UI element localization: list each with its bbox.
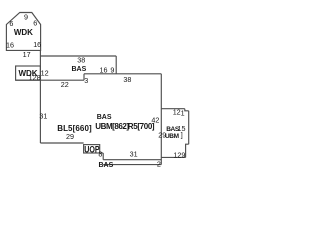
svg-text:16: 16 [33, 40, 41, 49]
svg-text:UBM[862]: UBM[862] [95, 122, 129, 131]
svg-text:16: 16 [100, 65, 108, 74]
wire: left wall of main block [39, 80, 41, 143]
svg-text:16: 16 [6, 40, 14, 49]
wire: right wall of main block [160, 74, 162, 165]
svg-text:UOP: UOP [84, 145, 99, 155]
svg-text:]: ] [181, 131, 183, 140]
svg-text:29: 29 [66, 132, 74, 141]
porch UOP box [84, 145, 100, 153]
wire: top wall of main block [16, 79, 84, 81]
wire: right wing top wall [161, 108, 185, 110]
wire: right wing bottom-right step [186, 144, 189, 157]
wire: 8 ft step wall [102, 153, 104, 160]
wire: BAS bump right wall [115, 56, 117, 74]
svg-text:129: 129 [173, 150, 185, 159]
svg-text:9: 9 [24, 13, 28, 22]
svg-text:31: 31 [39, 112, 47, 121]
wire: ledge from porch to rear wing [100, 152, 104, 154]
svg-text:BAS: BAS [97, 114, 112, 121]
svg-text:8: 8 [98, 150, 102, 159]
svg-text:128: 128 [29, 73, 41, 82]
svg-text:38: 38 [123, 75, 131, 84]
svg-text:2: 2 [157, 159, 161, 168]
svg-text:BAS: BAS [72, 66, 87, 73]
svg-text:12: 12 [41, 69, 49, 78]
svg-text:38: 38 [77, 56, 85, 65]
svg-text:1: 1 [181, 108, 185, 117]
svg-text:31: 31 [130, 149, 138, 158]
wire: rear BAS strip top wall [103, 159, 161, 161]
svg-text:9: 9 [110, 65, 114, 74]
svg-text:3: 3 [84, 76, 88, 85]
svg-text:42: 42 [151, 116, 159, 125]
svg-text:22: 22 [61, 80, 69, 89]
wire: 3 ft step wall [83, 74, 85, 80]
deck WDK outline (octagonal wood deck, top-left) [6, 13, 40, 51]
wire: left house wall upper segment (deck to main block) [39, 50, 41, 80]
svg-text:BAS: BAS [99, 162, 114, 169]
deck WDK box (small side wood deck) [16, 66, 41, 80]
svg-text:UBM: UBM [165, 133, 179, 140]
wire: bottom wall of main block [40, 142, 83, 144]
svg-text:BL5[660]: BL5[660] [57, 124, 92, 133]
wire: upper long wall [84, 73, 161, 75]
wire: right wing bottom wall [161, 156, 185, 158]
wire: rear BAS strip bottom wall [103, 164, 161, 166]
wire: BAS bump top wall [40, 55, 116, 57]
svg-text:WDK: WDK [14, 28, 33, 37]
wire: right wing top-right jog [185, 109, 189, 111]
svg-text:17: 17 [23, 50, 31, 59]
svg-text:6: 6 [9, 19, 13, 28]
wire: right wing right wall [188, 111, 190, 144]
svg-text:12: 12 [173, 108, 181, 117]
svg-text:6: 6 [33, 19, 37, 28]
